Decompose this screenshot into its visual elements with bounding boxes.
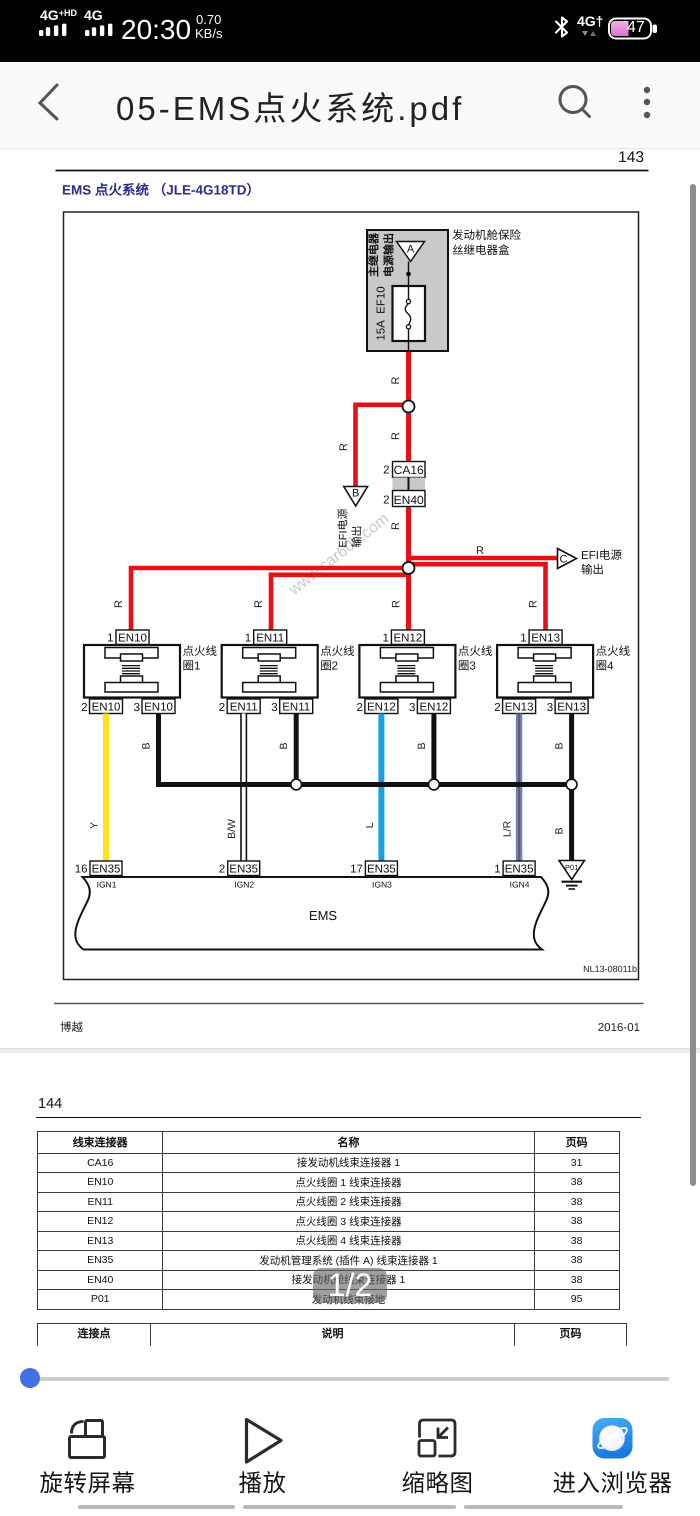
ignition coil 2 label: [320, 645, 355, 673]
wire inside fuse box: [408, 262, 410, 288]
wire B coil1 pin3: [156, 714, 161, 788]
svg-text:CA16: CA16: [394, 463, 424, 477]
ignition coil 2 connector EN11 pin3: [271, 699, 312, 714]
svg-text:EN35: EN35: [229, 863, 258, 875]
footer rule: [54, 1003, 644, 1005]
bus junction node coil4: [566, 779, 577, 790]
ignition coil 1 connector EN10 pin1: [107, 630, 149, 645]
svg-text:P01: P01: [565, 863, 578, 872]
svg-text:B: B: [554, 742, 566, 749]
svg-text:A: A: [407, 244, 415, 256]
svg-text:B: B: [554, 827, 566, 834]
svg-text:2: 2: [383, 465, 389, 477]
ignition coil 1 connector EN10 pin2: [81, 699, 122, 714]
wire R node1 to CA16: [406, 411, 411, 462]
svg-text:EMS: EMS: [309, 908, 338, 923]
ground P01: [559, 861, 585, 890]
ignition coil 2 body: [222, 645, 318, 698]
svg-text:圈3: 圈3: [458, 660, 476, 673]
svg-text:L/R: L/R: [502, 820, 514, 837]
svg-text:2: 2: [81, 702, 87, 714]
svg-text:R: R: [113, 600, 125, 608]
svg-text:B: B: [352, 488, 359, 500]
svg-text:1: 1: [107, 633, 113, 645]
wire L coil3 to EN35: [378, 714, 384, 862]
svg-text:EMS 点火系统 （JLE-4G18TD）: EMS 点火系统 （JLE-4G18TD）: [62, 183, 260, 198]
bus junction node coil2: [291, 779, 302, 790]
svg-text:1: 1: [245, 633, 251, 645]
wire Y coil1 to EN35: [103, 714, 109, 862]
svg-text:EN12: EN12: [367, 701, 396, 713]
ground bus wire: [156, 782, 574, 787]
svg-text:EN11: EN11: [256, 632, 284, 644]
svg-text:圈2: 圈2: [320, 660, 338, 673]
svg-text:点火线: 点火线: [596, 645, 631, 658]
engine-bay fuse relay box: [367, 230, 448, 351]
svg-text:R: R: [390, 522, 402, 530]
svg-text:圈4: 圈4: [596, 660, 614, 673]
svg-text:NL13-08011b: NL13-08011b: [583, 964, 637, 974]
svg-text:R: R: [253, 600, 265, 608]
svg-text:输出: 输出: [351, 526, 364, 548]
svg-text:B: B: [416, 742, 428, 749]
svg-text:EN35: EN35: [367, 863, 396, 875]
svg-text:143: 143: [618, 149, 644, 166]
browser icon: [593, 1418, 633, 1459]
svg-text:EN11: EN11: [282, 701, 310, 713]
svg-text:17: 17: [350, 864, 363, 876]
svg-text:R: R: [390, 376, 402, 384]
svg-text:博越: 博越: [60, 1021, 83, 1034]
node junction 1: [403, 401, 415, 413]
wire R fuse to node1: [406, 350, 411, 402]
wire R node2 to EN11: [271, 575, 406, 632]
ignition coil 3 connector EN12 pin2: [356, 699, 397, 714]
connector interface strip: [393, 478, 426, 491]
svg-text:B: B: [278, 742, 290, 749]
ignition coil 3 connector EN12 pin1: [382, 630, 424, 645]
ignition coil 4 connector EN13 pin2: [494, 699, 535, 714]
svg-text:IGN4: IGN4: [510, 880, 530, 890]
svg-text:R: R: [476, 545, 484, 557]
svg-text:EN13: EN13: [505, 701, 534, 713]
wire B bus to ground: [569, 785, 574, 861]
ignition coil 3 connector EN12 pin3: [409, 699, 450, 714]
svg-text:L: L: [364, 822, 376, 828]
ignition coil 4 connector EN13 pin1: [520, 630, 562, 645]
svg-text:点火线: 点火线: [320, 645, 355, 658]
EMS module block: [75, 877, 548, 950]
svg-text:EN13: EN13: [557, 701, 586, 713]
svg-text:EN11: EN11: [230, 701, 258, 713]
triangle C EFI power output: [558, 549, 623, 577]
svg-text:丝继电器盒: 丝继电器盒: [452, 244, 510, 257]
svg-text:2: 2: [356, 702, 362, 714]
wire R node2 to EN12: [406, 570, 411, 632]
svg-text:1: 1: [382, 633, 388, 645]
play icon: [247, 1420, 282, 1463]
connector EN40 pin2: [383, 491, 425, 507]
svg-text:15A EF10: 15A EF10: [376, 286, 388, 340]
svg-text:1: 1: [494, 864, 500, 876]
ignition coil 2 connector EN11 pin2: [219, 699, 260, 714]
svg-text:EN13: EN13: [531, 632, 560, 644]
connector EN35 pin16 IGN1: [75, 861, 122, 890]
wire R node2 to EN13: [411, 564, 546, 632]
page top edge: [0, 148, 700, 150]
svg-text:点火线: 点火线: [183, 645, 218, 658]
connector EN35 pin17 IGN3: [350, 861, 397, 890]
ignition coil 2 connector EN11 pin1: [245, 630, 287, 645]
svg-text:R: R: [528, 600, 540, 608]
ignition coil 4 body: [497, 645, 593, 698]
svg-text:EN10: EN10: [92, 701, 121, 713]
svg-text:EN10: EN10: [144, 701, 173, 713]
svg-text:圈1: 圈1: [183, 660, 201, 673]
svg-text:16: 16: [75, 864, 88, 876]
svg-text:主继电器: 主继电器: [368, 232, 381, 277]
svg-text:2: 2: [494, 702, 500, 714]
ignition coil 4 connector EN13 pin3: [547, 699, 588, 714]
svg-text:Y: Y: [89, 822, 101, 829]
svg-text:IGN1: IGN1: [97, 880, 117, 890]
ignition coil 1 body: [84, 645, 180, 698]
connector CA16 pin2: [383, 462, 425, 478]
svg-text:3: 3: [134, 702, 140, 714]
ignition coil 1 connector EN10 pin3: [134, 699, 175, 714]
svg-text:EFI电源: EFI电源: [581, 549, 622, 562]
ignition coil 3 label: [458, 645, 493, 673]
svg-text:EFI电源: EFI电源: [337, 508, 350, 547]
connector EN35 pin1 IGN4: [494, 861, 535, 890]
wire L/R coil4 to EN35: [516, 714, 522, 862]
svg-text:3: 3: [271, 702, 277, 714]
svg-text:R: R: [338, 443, 350, 451]
svg-text:C: C: [560, 554, 568, 566]
svg-text:R: R: [391, 600, 403, 608]
wire R node2 to C: [411, 556, 558, 561]
svg-text:IGN3: IGN3: [372, 880, 392, 890]
connector EN35 pin2 IGN2: [219, 861, 260, 890]
ignition coil 3 body: [359, 645, 455, 698]
triangle B EFI power output: [337, 487, 368, 548]
svg-text:EN12: EN12: [420, 701, 449, 713]
svg-text:3: 3: [547, 702, 553, 714]
wire B/W coil2 to EN35: [240, 714, 247, 862]
svg-text:点火线: 点火线: [458, 645, 493, 658]
wire B coil4 pin3: [569, 714, 574, 788]
header rule: [56, 170, 649, 172]
ignition coil 1 label: [183, 645, 218, 673]
svg-text:2: 2: [219, 864, 225, 876]
wire R EN40 to node2: [406, 506, 411, 564]
svg-text:EN12: EN12: [394, 632, 423, 644]
thumbnail icon: [419, 1420, 455, 1456]
bus junction node coil3: [429, 779, 440, 790]
svg-text:2: 2: [219, 702, 225, 714]
svg-text:电源输出: 电源输出: [383, 233, 396, 277]
svg-text:EN40: EN40: [394, 493, 424, 507]
triangle A main relay output: [397, 242, 425, 262]
node junction 2: [403, 562, 415, 574]
node dot below A: [406, 272, 411, 277]
ignition coil 4 label: [596, 645, 631, 673]
svg-text:B: B: [141, 742, 153, 749]
svg-text:R: R: [390, 432, 402, 440]
wire B coil3 pin3: [431, 714, 436, 788]
svg-text:EN35: EN35: [92, 863, 121, 875]
svg-text:2016-01: 2016-01: [598, 1022, 640, 1034]
svg-text:2: 2: [383, 495, 389, 507]
schematic frame: [64, 212, 639, 980]
svg-text:EN10: EN10: [118, 632, 147, 644]
wire R node1 branch to B: [356, 405, 405, 486]
fuse F EF10 15A: [376, 286, 426, 350]
rotate screen icon: [70, 1421, 105, 1458]
svg-text:输出: 输出: [581, 564, 604, 577]
svg-text:EN35: EN35: [505, 863, 534, 875]
wire R node2 to EN10: [131, 568, 406, 632]
wire B coil2 pin3: [294, 714, 299, 788]
svg-text:1: 1: [520, 633, 526, 645]
svg-text:3: 3: [409, 702, 415, 714]
svg-text:B/W: B/W: [226, 819, 238, 839]
svg-text:发动机舱保险: 发动机舱保险: [452, 229, 521, 242]
svg-text:IGN2: IGN2: [234, 880, 254, 890]
